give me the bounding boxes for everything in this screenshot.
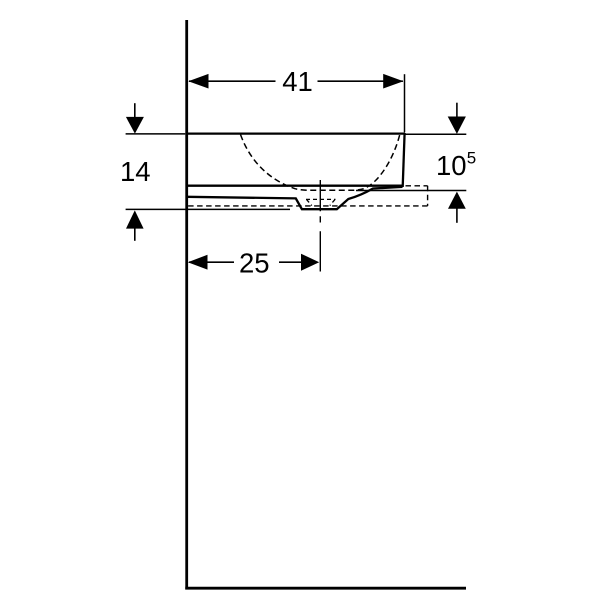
svg-text:10: 10 [436,150,467,181]
svg-text:41: 41 [282,66,313,97]
svg-text:14: 14 [120,156,151,187]
svg-text:5: 5 [467,149,476,168]
svg-text:25: 25 [239,248,270,279]
